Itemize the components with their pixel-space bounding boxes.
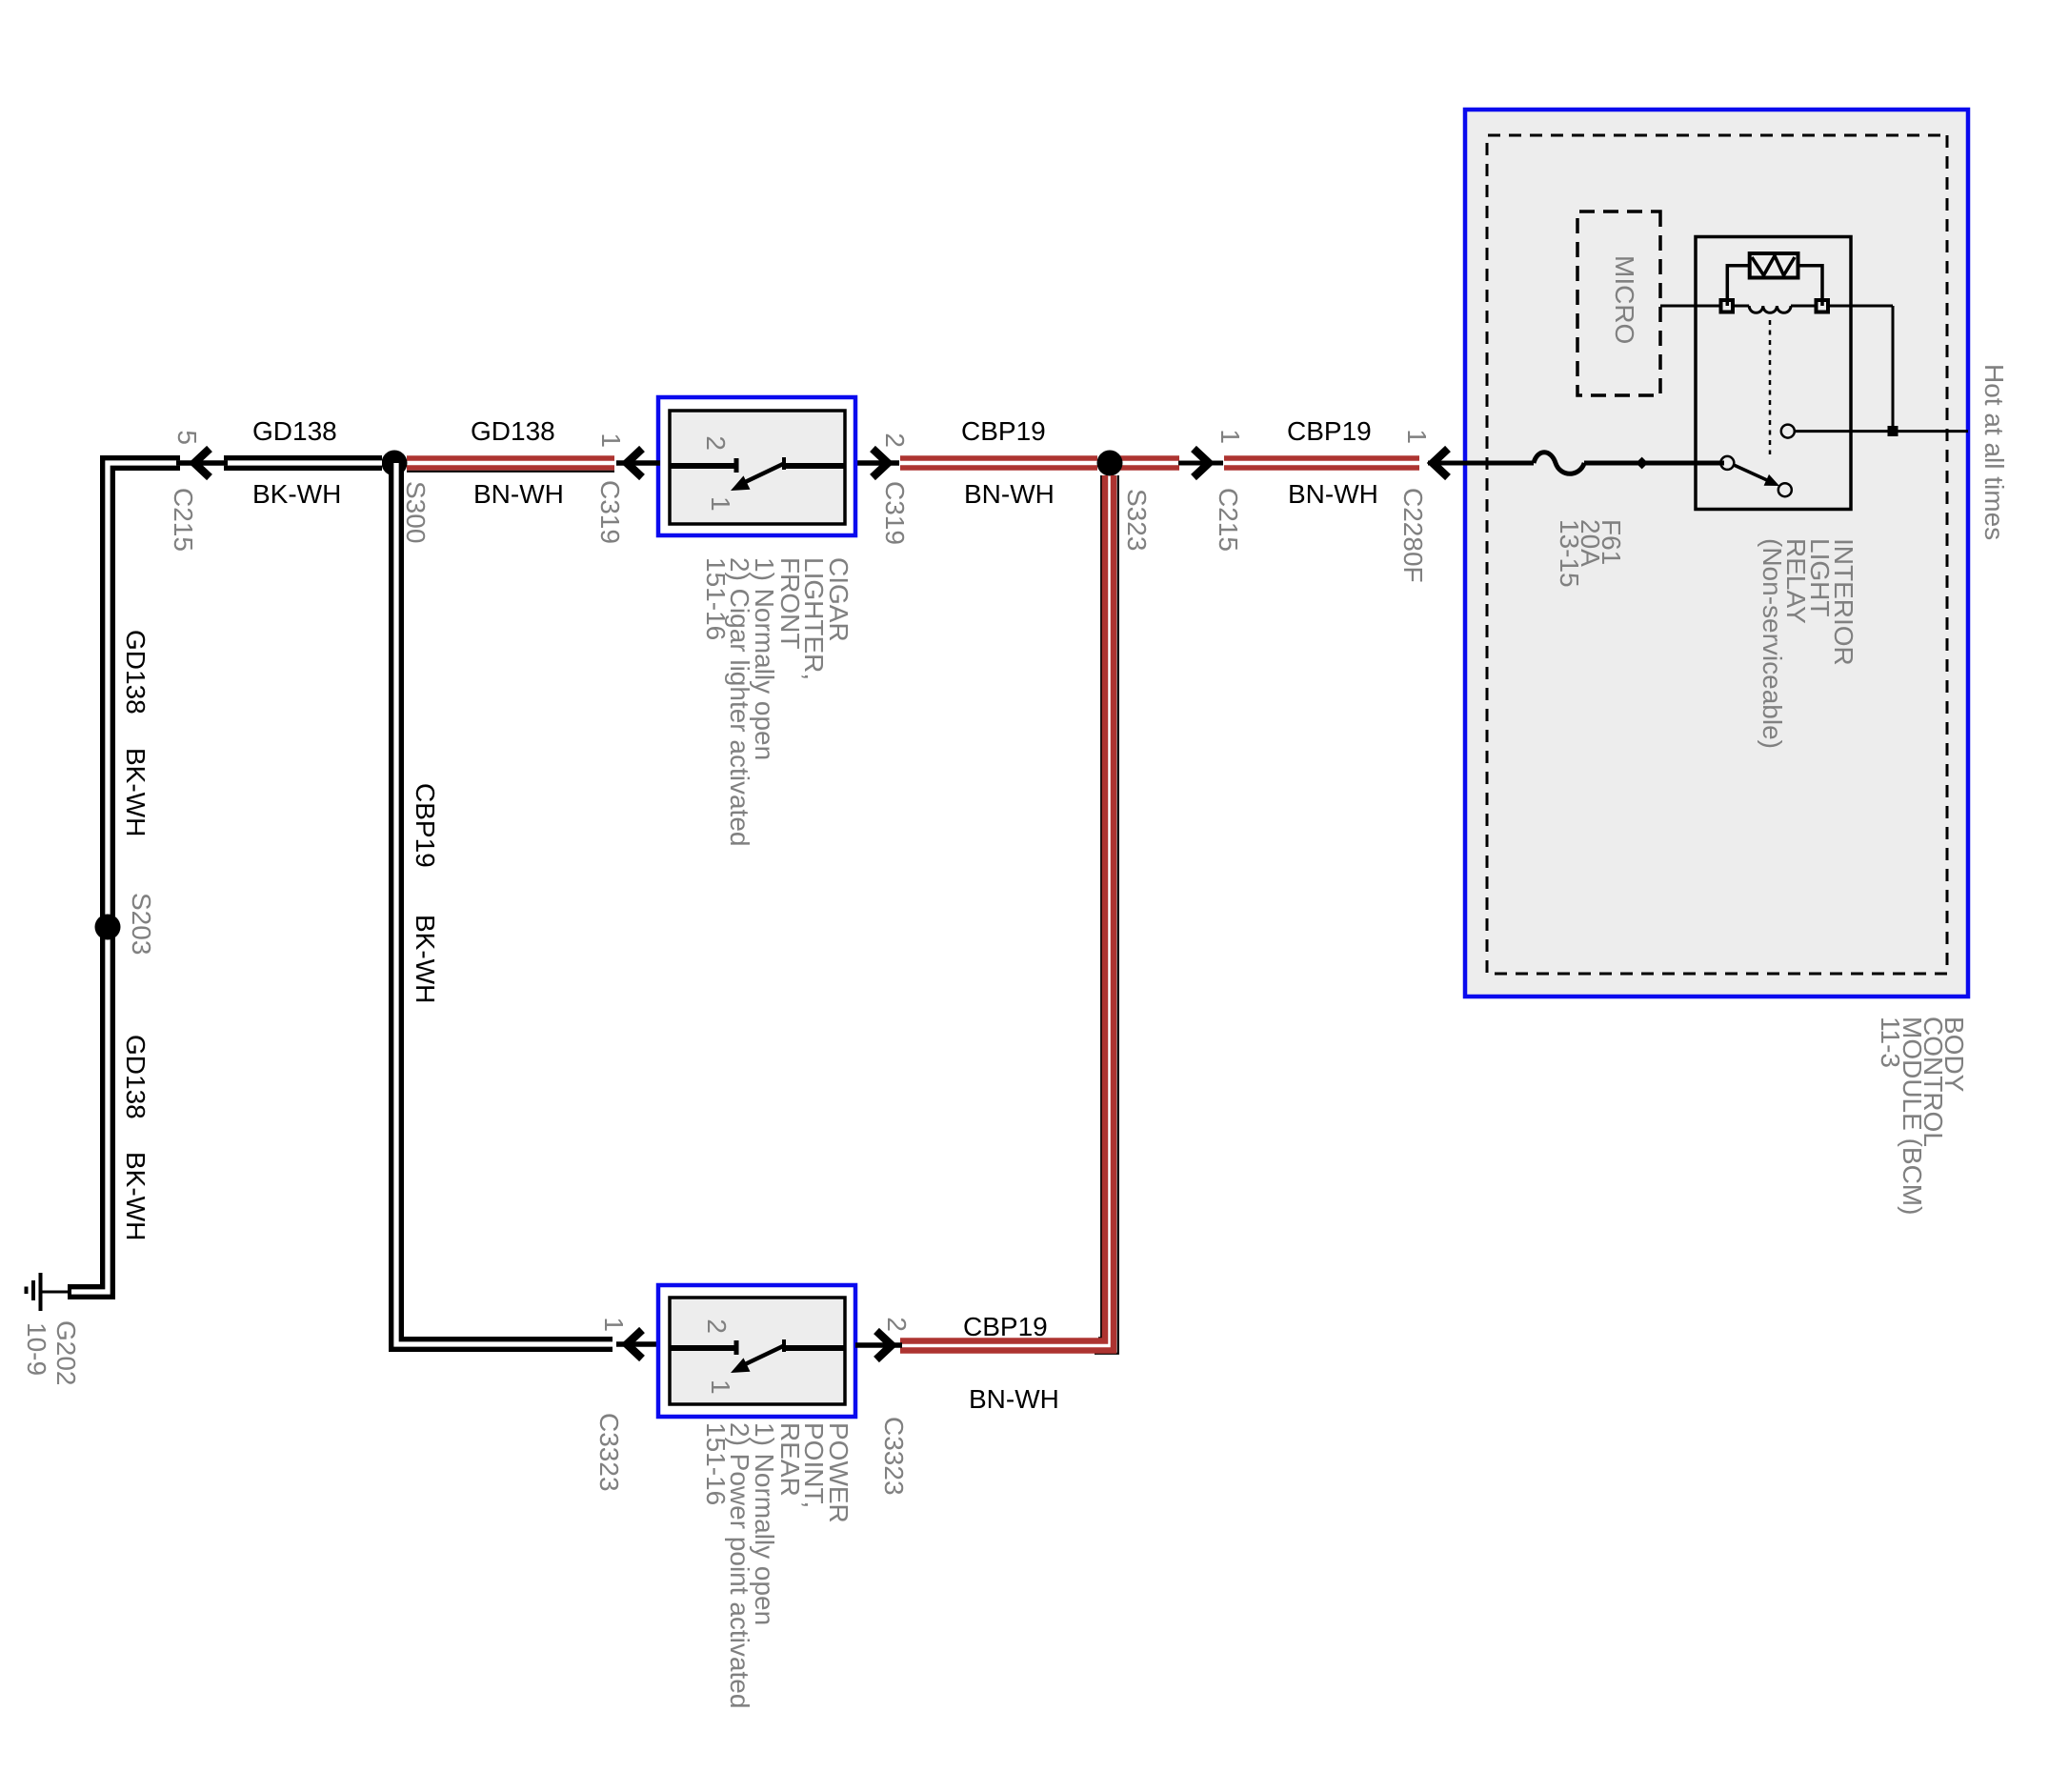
svg-text:2: 2 (880, 433, 910, 448)
svg-text:151-16: 151-16 (701, 557, 731, 640)
wire CBP19 BN-WH from S323 down to cigar lighter pin 2 (900, 455, 1097, 461)
relay K1: INTERIOR LIGHT RELAY box (1696, 237, 1851, 510)
splice S323 junction dot (1097, 451, 1123, 476)
cigar switch bottom contact tick (734, 458, 739, 473)
connector arrow C3323 pin 1 (pointing down, power point) (616, 1341, 660, 1347)
label: wire GD138 BN-WH (471, 416, 564, 509)
relay common contact circle (1720, 456, 1734, 470)
label: CIGAR LIGHTER FRONT (701, 557, 854, 846)
svg-text:BN-WH: BN-WH (969, 1384, 1059, 1414)
junction dot on feed line (1636, 457, 1648, 470)
cigar switch pin2 internal line (785, 463, 845, 469)
svg-text:CBP19: CBP19 (963, 1312, 1048, 1341)
label: wire CBP19 BN-WH (C2280F segment) (1287, 416, 1378, 509)
wire labels GD138 BK-WH on ground run (first pair) (121, 630, 151, 836)
svg-text:(Non-serviceable): (Non-serviceable) (1758, 538, 1787, 749)
splice S300 junction dot (382, 451, 408, 476)
svg-text:BN-WH: BN-WH (1288, 479, 1378, 509)
svg-text:1: 1 (599, 1317, 629, 1332)
svg-text:BN-WH: BN-WH (473, 479, 564, 509)
coil terminal pin square top (1817, 300, 1829, 312)
svg-text:C319: C319 (595, 480, 625, 544)
connector arrow C215 pin 5 (pointing down) (176, 460, 228, 466)
wire GD138 BK-WH from S300 to C215 arrow 5 and ground run (224, 455, 382, 471)
svg-text:C3323: C3323 (594, 1413, 624, 1492)
wire labels GD138 BK-WH on ground run (second pair) (121, 1035, 151, 1240)
label: INTERIOR LIGHT RELAY (1758, 538, 1858, 749)
wire CBP19 BK-WH from S300 to power point pin 1 (396, 463, 613, 1344)
svg-text:S323: S323 (1122, 489, 1152, 551)
svg-text:1: 1 (1402, 429, 1432, 444)
wire CBP19 BN-WH branch from S323 to power point feed corner (900, 475, 1118, 1354)
label: wire CBP19 BN-WH (cigar lighter feed) (961, 416, 1055, 509)
power point switch top contact tick (782, 1339, 786, 1352)
wire: resistor bottom leg (1727, 266, 1749, 306)
svg-text:1: 1 (706, 496, 735, 512)
svg-text:CBP19: CBP19 (1287, 416, 1372, 446)
svg-text:BK-WH: BK-WH (121, 748, 151, 836)
svg-text:BK-WH: BK-WH (252, 479, 341, 509)
wire: hot feed vertical into relay NO contact (1795, 430, 1968, 433)
relay coil L1 (1828, 305, 1894, 308)
micro U2: MICRO dashed box (1577, 211, 1660, 395)
label: wire CBP19 BK-WH (power point return) (411, 783, 440, 1003)
svg-text:BK-WH: BK-WH (121, 1152, 151, 1240)
relay armature (1734, 465, 1767, 480)
svg-text:Hot at all times: Hot at all times (1979, 364, 2009, 540)
wire: fuse to BCM edge (1428, 461, 1534, 466)
svg-text:1: 1 (1215, 429, 1245, 444)
label: POWER POINT REAR (701, 1422, 854, 1708)
connector arrow C2280F pin 1 (pointing down) (1433, 449, 1448, 477)
svg-text:C319: C319 (880, 481, 910, 545)
svg-text:5: 5 (172, 430, 202, 445)
wire: relay common down to fuse (1584, 461, 1724, 466)
power point switch armature (741, 1346, 783, 1366)
svg-text:CBP19: CBP19 (961, 416, 1046, 446)
label: fuse F61 20A 13-15 (1555, 519, 1626, 588)
wire: micro output to relay coil (1660, 305, 1720, 308)
dotted actuation line from coil to armature (1769, 320, 1772, 454)
svg-text:GD138: GD138 (121, 1035, 151, 1119)
label: BODY CONTROL MODULE (BCM) 11-3 (1876, 1017, 1969, 1215)
power point SW2 box (658, 1285, 855, 1417)
splice S203 junction dot (95, 915, 121, 940)
svg-text:GD138: GD138 (471, 416, 555, 446)
resistor R1 in parallel with coil (1750, 253, 1798, 278)
BCM dashed internal boundary (1487, 135, 1947, 974)
svg-text:BN-WH: BN-WH (964, 479, 1055, 509)
connector arrow C319 pin 1 (pointing down, cigar lighter) (616, 460, 660, 466)
relay contact: NO contact circle to hot (1781, 425, 1795, 438)
svg-text:S203: S203 (127, 893, 156, 955)
coil terminal pin square bottom (1721, 300, 1734, 312)
wire: resistor top leg (1798, 266, 1823, 306)
label: wire CBP19 BN-WH (power point feed) (963, 1312, 1059, 1414)
wire CBP19 BN-WH from C2280F to C215 arrow (1224, 455, 1419, 461)
BCM module U1: Body Control Module outer box (1465, 110, 1968, 997)
cigar lighter SW1 box (658, 397, 855, 535)
svg-text:2: 2 (702, 1319, 732, 1334)
svg-text:2: 2 (701, 435, 731, 451)
svg-text:1: 1 (596, 433, 626, 448)
relay contact: spare contact circle (1778, 483, 1792, 496)
svg-text:2: 2 (882, 1317, 912, 1332)
power point switch pin1 internal line (670, 1345, 734, 1351)
ground G202 symbol (41, 1291, 68, 1294)
svg-text:BK-WH: BK-WH (411, 915, 440, 1003)
svg-text:C3323: C3323 (879, 1417, 909, 1496)
wire: coil top terminal to hot junction (1892, 306, 1895, 432)
svg-text:C215: C215 (1214, 488, 1243, 552)
wire GD138 BN-WH from cigar lighter pin1 to S300 (407, 455, 614, 461)
label: wire GD138 BK-WH (trunk) (252, 416, 341, 509)
power point switch pin2 internal line (785, 1345, 845, 1351)
svg-text:11-3: 11-3 (1876, 1017, 1905, 1068)
svg-text:GD138: GD138 (121, 630, 151, 715)
cigar switch pin1 internal line (670, 463, 734, 469)
cigar switch armature (741, 464, 783, 484)
fuse F61 20A (1534, 453, 1584, 474)
connector arrow C215 pin 1 (pointing up) (1178, 461, 1223, 466)
connector arrow C3323 pin 2 (pointing up, power point) (855, 1342, 902, 1348)
junction: coil feed to hot line (filled square) (1888, 426, 1898, 436)
svg-text:MICRO: MICRO (1610, 255, 1639, 344)
power point switch bottom contact tick (734, 1340, 739, 1355)
svg-text:10-9: 10-9 (22, 1322, 51, 1376)
cigar switch top contact tick (782, 457, 786, 470)
svg-text:GD138: GD138 (252, 416, 337, 446)
svg-text:CBP19: CBP19 (411, 783, 440, 868)
svg-text:1: 1 (706, 1379, 735, 1395)
connector arrow C319 pin 2 (pointing up, cigar lighter) (855, 460, 899, 466)
svg-text:13-15: 13-15 (1555, 519, 1584, 588)
svg-text:C2280F: C2280F (1398, 488, 1428, 583)
svg-text:C215: C215 (169, 488, 198, 552)
svg-text:S300: S300 (401, 481, 431, 543)
svg-text:G202: G202 (51, 1320, 81, 1386)
wire CBP19 BN-WH from C215 arrow to S323 (1120, 455, 1179, 461)
svg-text:151-16: 151-16 (701, 1422, 731, 1505)
label: ground G202 10-9 (22, 1320, 81, 1386)
